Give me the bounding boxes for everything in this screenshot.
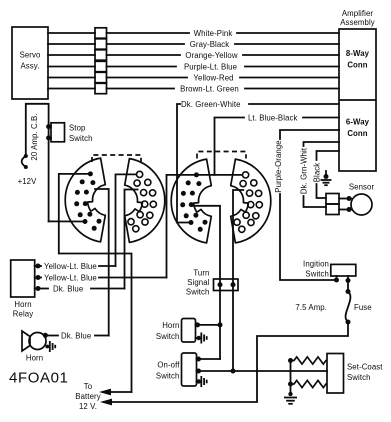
- column connector fan 4 (slip ring): [231, 159, 271, 243]
- svg-text:Purple-Lt. Blue: Purple-Lt. Blue: [184, 62, 237, 71]
- svg-text:Horn: Horn: [26, 354, 43, 363]
- stop switch: [46, 123, 92, 143]
- svg-text:Horn: Horn: [162, 321, 179, 330]
- svg-text:Dk. Blue: Dk. Blue: [53, 284, 83, 293]
- svg-text:Yellow-Lt. Blue: Yellow-Lt. Blue: [44, 273, 97, 282]
- wire fuse to battery: [104, 322, 348, 402]
- fan 1 contact dots: [74, 171, 101, 230]
- to battery label: [75, 382, 100, 411]
- svg-text:+12V: +12V: [18, 177, 38, 186]
- 8-way connector: [346, 49, 370, 70]
- amplifier assembly: [339, 9, 376, 171]
- svg-text:Switch: Switch: [156, 372, 180, 381]
- svg-text:Switch: Switch: [69, 134, 93, 143]
- wire Purple-Lt. Blue: [48, 62, 339, 71]
- wire Dk. Blue (relay 3): [35, 284, 125, 293]
- svg-text:Amplifier: Amplifier: [342, 9, 374, 18]
- svg-text:4FOA01: 4FOA01: [9, 370, 68, 387]
- 6-way connector: [346, 118, 370, 139]
- svg-text:Signal: Signal: [187, 278, 209, 287]
- column connector fan 2 (slip ring): [125, 159, 165, 243]
- svg-text:Fuse: Fuse: [354, 303, 372, 312]
- wire Dk. Green-White: [177, 100, 339, 223]
- ground (on-off switch): [197, 376, 207, 387]
- svg-text:Dk. Green-White: Dk. Green-White: [181, 100, 241, 109]
- arrowhead battery 1: [99, 389, 132, 396]
- column connector fan 1 (brush plate): [65, 158, 105, 242]
- wire fan2 ring to horn relay 1: [116, 174, 137, 266]
- svg-text:Dk. Grn-Whit: Dk. Grn-Whit: [299, 147, 308, 194]
- on-off switch: [156, 353, 220, 386]
- wire fan1 notch to horn circuit: [95, 189, 109, 336]
- wire Purple-Orange: [274, 130, 339, 283]
- wire Lt. Blue-Black: [215, 113, 340, 175]
- svg-text:Lt. Blue-Black: Lt. Blue-Black: [248, 113, 298, 122]
- fan 3 contact dots: [180, 172, 207, 231]
- wire Yellow-Lt. Blue (relay 2): [35, 273, 167, 282]
- circuit breaker feed loop: [26, 104, 85, 222]
- svg-text:Switch: Switch: [347, 373, 371, 382]
- svg-text:Switch: Switch: [305, 270, 329, 279]
- wire fan3-fan4 link: [196, 174, 242, 176]
- wire fan3 notch to turn signal: [192, 206, 220, 359]
- wire on-off to set-coast: [196, 369, 327, 374]
- horn: [22, 331, 46, 363]
- svg-text:Gray-Black: Gray-Black: [190, 40, 230, 49]
- svg-text:12 V.: 12 V.: [79, 402, 97, 411]
- wire White-Pink: [48, 29, 339, 38]
- svg-text:Yellow-Lt. Blue: Yellow-Lt. Blue: [44, 262, 97, 271]
- servo assembly box: [12, 27, 48, 99]
- ground (set-coast): [284, 358, 297, 404]
- dashed link pair 2: [197, 152, 246, 159]
- circuit breaker 20 Amp. C.B.: [22, 113, 39, 169]
- ground (horn): [45, 341, 55, 352]
- svg-text:Turn: Turn: [193, 269, 209, 278]
- wire Brown-Lt. Green: [48, 84, 339, 93]
- fuse 7.5 Amp.: [295, 289, 371, 325]
- svg-text:Battery: Battery: [75, 392, 100, 401]
- ignition switch: [303, 260, 356, 292]
- svg-text:Relay: Relay: [13, 310, 33, 319]
- wire Dk. Grn-Whit: [299, 142, 339, 207]
- svg-text:Assembly: Assembly: [340, 18, 375, 27]
- svg-text:20 Amp. C.B.: 20 Amp. C.B.: [30, 113, 39, 160]
- turn signal switch: [186, 269, 238, 297]
- svg-text:Conn: Conn: [347, 129, 367, 138]
- svg-text:On-off: On-off: [157, 361, 180, 370]
- svg-text:Brown-Lt. Green: Brown-Lt. Green: [180, 84, 239, 93]
- svg-text:Purple-Orange: Purple-Orange: [274, 140, 283, 192]
- svg-text:To: To: [84, 382, 93, 391]
- svg-text:Assy.: Assy.: [21, 62, 40, 71]
- horn switch: [156, 319, 223, 343]
- svg-text:Switch: Switch: [186, 288, 210, 297]
- svg-text:White-Pink: White-Pink: [194, 29, 233, 38]
- svg-text:Set-Coast: Set-Coast: [347, 363, 383, 372]
- svg-text:Horn: Horn: [14, 300, 31, 309]
- sensor: [349, 183, 375, 216]
- ground (horn switch): [196, 333, 207, 344]
- wire Dk. Blue (horn): [43, 331, 109, 340]
- servo bulkhead connector blocks: [95, 28, 107, 94]
- svg-text:Conn: Conn: [347, 61, 367, 70]
- svg-text:Stop: Stop: [69, 124, 86, 133]
- wire Yellow-Red: [48, 73, 339, 82]
- horn relay: [11, 260, 35, 319]
- svg-text:Black: Black: [312, 163, 321, 183]
- svg-text:Yellow-Red: Yellow-Red: [193, 73, 233, 82]
- svg-text:Switch: Switch: [156, 332, 180, 341]
- resistor (coast side): [291, 380, 328, 387]
- wire Gray-Black: [48, 40, 339, 49]
- wire Orange-Yellow: [48, 51, 339, 60]
- set-coast switch: [327, 354, 383, 394]
- wire fan2 ring to horn relay 3: [125, 190, 138, 289]
- svg-text:Ingition: Ingition: [303, 260, 329, 269]
- fan 4 contact rings: [234, 172, 263, 233]
- wire Yellow-Lt. Blue (relay 1): [35, 262, 116, 271]
- arrowhead battery 2: [100, 399, 112, 406]
- ground (amplifier 6-way): [321, 171, 332, 185]
- svg-text:Servo: Servo: [20, 51, 41, 60]
- fan 2 contact rings: [128, 171, 156, 232]
- svg-text:8-Way: 8-Way: [346, 49, 370, 58]
- wire fan3 brush to horn relay 2: [167, 175, 197, 278]
- wire fan4 ring to on-off switch: [233, 190, 243, 371]
- dashed link pair 1: [92, 155, 141, 162]
- wire fan1 feed to battery loop: [59, 174, 132, 392]
- svg-text:Orange-Yellow: Orange-Yellow: [185, 51, 237, 60]
- svg-text:Sensor: Sensor: [349, 183, 375, 192]
- resistor (set side): [291, 357, 328, 364]
- svg-text:6-Way: 6-Way: [346, 118, 370, 127]
- column connector fan 3 (brush plate): [171, 159, 211, 243]
- sensor connector: [326, 194, 352, 215]
- svg-text:7.5 Amp.: 7.5 Amp.: [295, 303, 327, 312]
- svg-text:Dk. Blue: Dk. Blue: [61, 331, 91, 340]
- wire Black: [312, 151, 339, 198]
